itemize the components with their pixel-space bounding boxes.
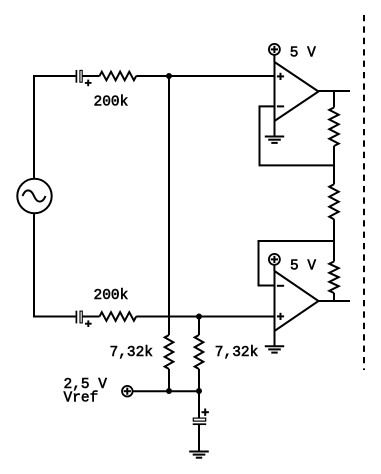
ground G2 under U2 — [265, 331, 284, 353]
wire output to RA — [333, 91, 335, 108]
wire source to bottom rail — [34, 214, 76, 317]
resistor R2 — [100, 312, 137, 321]
capacitor C1 — [76, 70, 91, 86]
Vref source circle — [122, 386, 133, 397]
ground G1 under U1 — [265, 121, 284, 143]
wire U1 output — [319, 90, 351, 92]
svg-text:7,32k: 7,32k — [215, 345, 259, 361]
resistor RB — [329, 184, 338, 219]
wire RC to U2 output — [333, 293, 335, 301]
op-amp U1 — [275, 62, 319, 121]
AC voltage source V1 — [17, 179, 51, 213]
capacitor C3 — [193, 409, 209, 425]
svg-text:7,32k: 7,32k — [110, 345, 154, 361]
resistor R3 7,32k — [165, 335, 174, 369]
wire node B down — [198, 317, 200, 336]
wire node A down — [168, 76, 170, 335]
node A junction dot — [166, 73, 172, 79]
wire R2 to op-amp U2 + input — [136, 316, 274, 318]
resistor RA — [329, 108, 338, 147]
wire node D to C3 — [198, 391, 200, 418]
svg-text:200k: 200k — [94, 288, 129, 304]
wire C2 to R2 — [83, 316, 100, 318]
wire U2 output — [319, 300, 351, 302]
op-amp U2 — [275, 271, 319, 331]
resistor R1 — [100, 72, 137, 81]
wire U2 feedback top — [259, 241, 335, 286]
ground G3 — [189, 452, 209, 458]
wire R3 to Vref node — [168, 369, 170, 391]
wire C3 to ground — [198, 425, 200, 452]
capacitor C2 — [76, 311, 91, 327]
wire top from source to C1 — [34, 76, 76, 178]
resistor RC — [329, 262, 338, 294]
node B junction dot — [196, 314, 202, 320]
svg-text:Vref: Vref — [64, 391, 99, 407]
svg-text:200k: 200k — [94, 95, 129, 111]
svg-text:5 V: 5 V — [290, 45, 316, 61]
svg-text:5 V: 5 V — [290, 258, 316, 274]
power symbol +5V U1 — [269, 44, 280, 62]
wire RB to RC — [333, 219, 335, 261]
node D junction dot — [196, 388, 202, 394]
wire R4 to Vref node — [198, 369, 200, 391]
resistor R4 7,32k — [195, 335, 204, 369]
dashed boundary line — [363, 15, 365, 370]
wire R1 to op-amp U1 + input — [136, 75, 274, 77]
wire Vref to node C — [133, 390, 199, 392]
node C junction dot — [166, 388, 172, 394]
wire RA to RB — [333, 146, 335, 184]
wire U1 feedback to chain — [260, 106, 335, 165]
wire C1 to R1 — [83, 75, 100, 77]
power symbol +5V U2 — [269, 254, 280, 271]
